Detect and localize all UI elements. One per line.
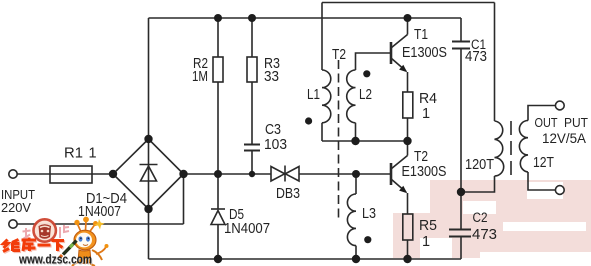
svg-text:R4: R4 xyxy=(419,91,437,107)
svg-text:12T: 12T xyxy=(533,155,554,171)
svg-text:33: 33 xyxy=(264,69,279,85)
svg-text:L2: L2 xyxy=(359,87,372,103)
svg-text:1: 1 xyxy=(89,146,97,162)
svg-text:1M: 1M xyxy=(192,69,208,85)
svg-text:C3: C3 xyxy=(265,122,281,138)
svg-text:DB3: DB3 xyxy=(276,186,300,202)
svg-text:T2: T2 xyxy=(332,47,346,63)
svg-text:T1: T1 xyxy=(414,27,428,43)
svg-text:220V: 220V xyxy=(1,200,31,215)
svg-text:473: 473 xyxy=(472,227,497,243)
svg-text:www.dzsc.com: www.dzsc.com xyxy=(18,253,92,266)
svg-text:103: 103 xyxy=(264,137,287,153)
svg-text:1: 1 xyxy=(422,234,430,250)
svg-text:L3: L3 xyxy=(362,206,376,222)
svg-text:L1: L1 xyxy=(307,87,320,103)
svg-text:T2: T2 xyxy=(414,149,428,165)
svg-text:E1300S: E1300S xyxy=(402,164,447,180)
svg-text:1N4007: 1N4007 xyxy=(224,221,270,237)
svg-text:12V/5A: 12V/5A xyxy=(542,131,586,146)
svg-text:OUT: OUT xyxy=(535,115,558,130)
svg-text:R5: R5 xyxy=(419,218,437,234)
svg-text:R1: R1 xyxy=(64,146,83,162)
svg-text:1: 1 xyxy=(422,106,430,122)
svg-text:473: 473 xyxy=(465,49,487,65)
svg-text:PUT: PUT xyxy=(564,115,588,130)
svg-text:C2: C2 xyxy=(473,210,488,225)
svg-text:E1300S: E1300S xyxy=(402,45,447,61)
svg-text:120T: 120T xyxy=(465,157,494,173)
